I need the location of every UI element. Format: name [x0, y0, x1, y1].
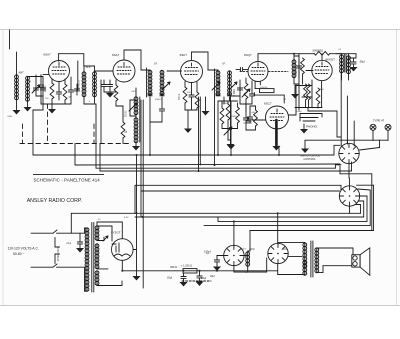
svg-text:1MEG: 1MEG [231, 116, 237, 118]
svg-text:6K6: 6K6 [283, 249, 288, 251]
svg-text:INTERLOCK: INTERLOCK [57, 247, 60, 261]
svg-text:TYPE 47: TYPE 47 [373, 119, 385, 123]
svg-text:390Ω: 390Ω [249, 249, 255, 251]
svg-text:500000Ω: 500000Ω [313, 49, 324, 53]
svg-text:390 Ω: 390 Ω [170, 265, 177, 269]
svg-text:CONTROL: CONTROL [304, 158, 317, 161]
svg-text:ANT: ANT [19, 71, 25, 75]
svg-text:8µf: 8µf [206, 253, 209, 255]
svg-text:456KC: 456KC [155, 99, 162, 101]
svg-text:SHIELD: SHIELD [78, 80, 81, 89]
svg-text:6K6GT: 6K6GT [326, 58, 336, 62]
svg-text:50-60 ~: 50-60 ~ [13, 252, 25, 256]
svg-text:OSC: OSC [131, 91, 136, 93]
svg-text:300 Ω: 300 Ω [179, 94, 181, 100]
svg-text:500M: 500M [222, 103, 228, 105]
svg-text:ANSLEY RADIO CORP.: ANSLEY RADIO CORP. [27, 198, 82, 204]
svg-text:110-120 VOLTS A.C.: 110-120 VOLTS A.C. [8, 247, 39, 251]
svg-text:20µf: 20µf [210, 275, 215, 278]
svg-text:+ 1,250 Ω: + 1,250 Ω [181, 265, 192, 268]
svg-text:25000: 25000 [126, 110, 128, 117]
svg-text:250M: 250M [296, 111, 302, 113]
svg-text:20000: 20000 [45, 85, 47, 92]
svg-text:R.F.: R.F. [86, 65, 91, 69]
svg-text:500000: 500000 [260, 87, 268, 89]
svg-text:I.F.: I.F. [154, 62, 158, 66]
svg-text:6SA7: 6SA7 [43, 53, 51, 57]
svg-text:25000: 25000 [106, 92, 113, 94]
svg-text:6SK7: 6SK7 [180, 53, 188, 57]
svg-text:6.3V: 6.3V [124, 217, 129, 219]
svg-text:6SQ7: 6SQ7 [244, 53, 252, 57]
svg-text:5Y3GT: 5Y3GT [111, 231, 121, 235]
svg-text:20µf: 20µf [201, 276, 206, 280]
svg-text:SCHEMATIC - PANELTONE 414: SCHEMATIC - PANELTONE 414 [34, 178, 101, 183]
svg-text:.0001: .0001 [7, 116, 13, 118]
svg-text:6SC7: 6SC7 [264, 102, 272, 106]
svg-text:I.F.: I.F. [222, 62, 226, 66]
svg-text:PHONO: PHONO [306, 125, 318, 129]
svg-text:2 MEG: 2 MEG [234, 89, 236, 96]
svg-text:6SA7: 6SA7 [112, 53, 120, 57]
svg-text:OSC: OSC [296, 70, 298, 75]
svg-text:.05µf: .05µf [359, 60, 365, 64]
svg-text:.01µf: .01µf [66, 243, 72, 245]
svg-text:6SC7: 6SC7 [240, 249, 246, 251]
svg-text:20µf: 20µf [167, 276, 172, 280]
svg-text:SWITCH ON VOL: SWITCH ON VOL [300, 154, 321, 157]
